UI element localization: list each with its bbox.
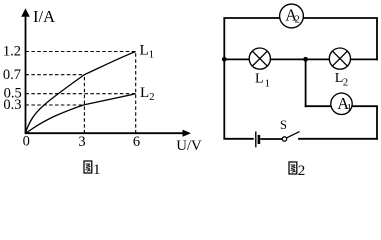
wire middle center [270,58,329,60]
wire left vertical [223,18,225,139]
lamp L2 [329,48,350,69]
curve L1 [26,52,136,134]
graph y-axis I/A [21,8,30,133]
wire top left [223,17,280,19]
caption 图2 [289,162,305,179]
dashed line U=6 [135,52,137,134]
curve L2 [26,94,136,134]
dashed line I=0.5 [26,93,136,95]
svg-text:I/A: I/A [33,7,55,26]
svg-text:1: 1 [93,162,101,178]
wire middle left [224,58,250,60]
svg-text:1.2: 1.2 [3,43,21,59]
wire A1 branch left [305,105,332,107]
dashed line U=3 [83,75,85,134]
svg-text:1: 1 [347,103,352,114]
dashed line I=1.2 [26,51,136,53]
wire middle right [350,58,378,60]
svg-text:L1: L1 [140,43,155,61]
svg-text:U/V: U/V [176,138,202,154]
wire bottom left [223,138,253,140]
svg-text:L: L [255,71,264,86]
lamp L1 [249,48,270,69]
node junction left [222,57,227,62]
svg-text:2: 2 [298,163,306,179]
svg-text:6: 6 [133,134,140,150]
battery cell [256,132,259,148]
wire top right [303,17,378,19]
ammeter A2 [280,4,304,28]
dashed line I=0.7 [26,74,85,76]
svg-text:0: 0 [23,134,30,150]
svg-text:1: 1 [265,78,270,89]
svg-text:0.7: 0.7 [3,67,21,83]
svg-text:S: S [280,118,287,132]
wire bottom right [298,138,378,140]
dashed line I=0.3 [26,104,85,106]
svg-text:2: 2 [295,14,300,25]
svg-text:0.3: 0.3 [3,97,21,113]
node junction middle [303,57,308,62]
wire battery to switch [260,138,282,140]
wire right upper vertical [376,18,378,60]
svg-text:L2: L2 [140,85,155,103]
graph x-axis U/V [25,130,191,137]
ammeter A1 [331,93,352,114]
switch S [280,118,300,141]
wire right lower vertical [376,106,378,140]
wire A1 branch vertical [305,59,307,107]
svg-text:2: 2 [343,78,348,89]
caption 图1 [84,161,101,178]
svg-text:3: 3 [78,134,85,150]
wire A1 branch right [352,105,378,107]
